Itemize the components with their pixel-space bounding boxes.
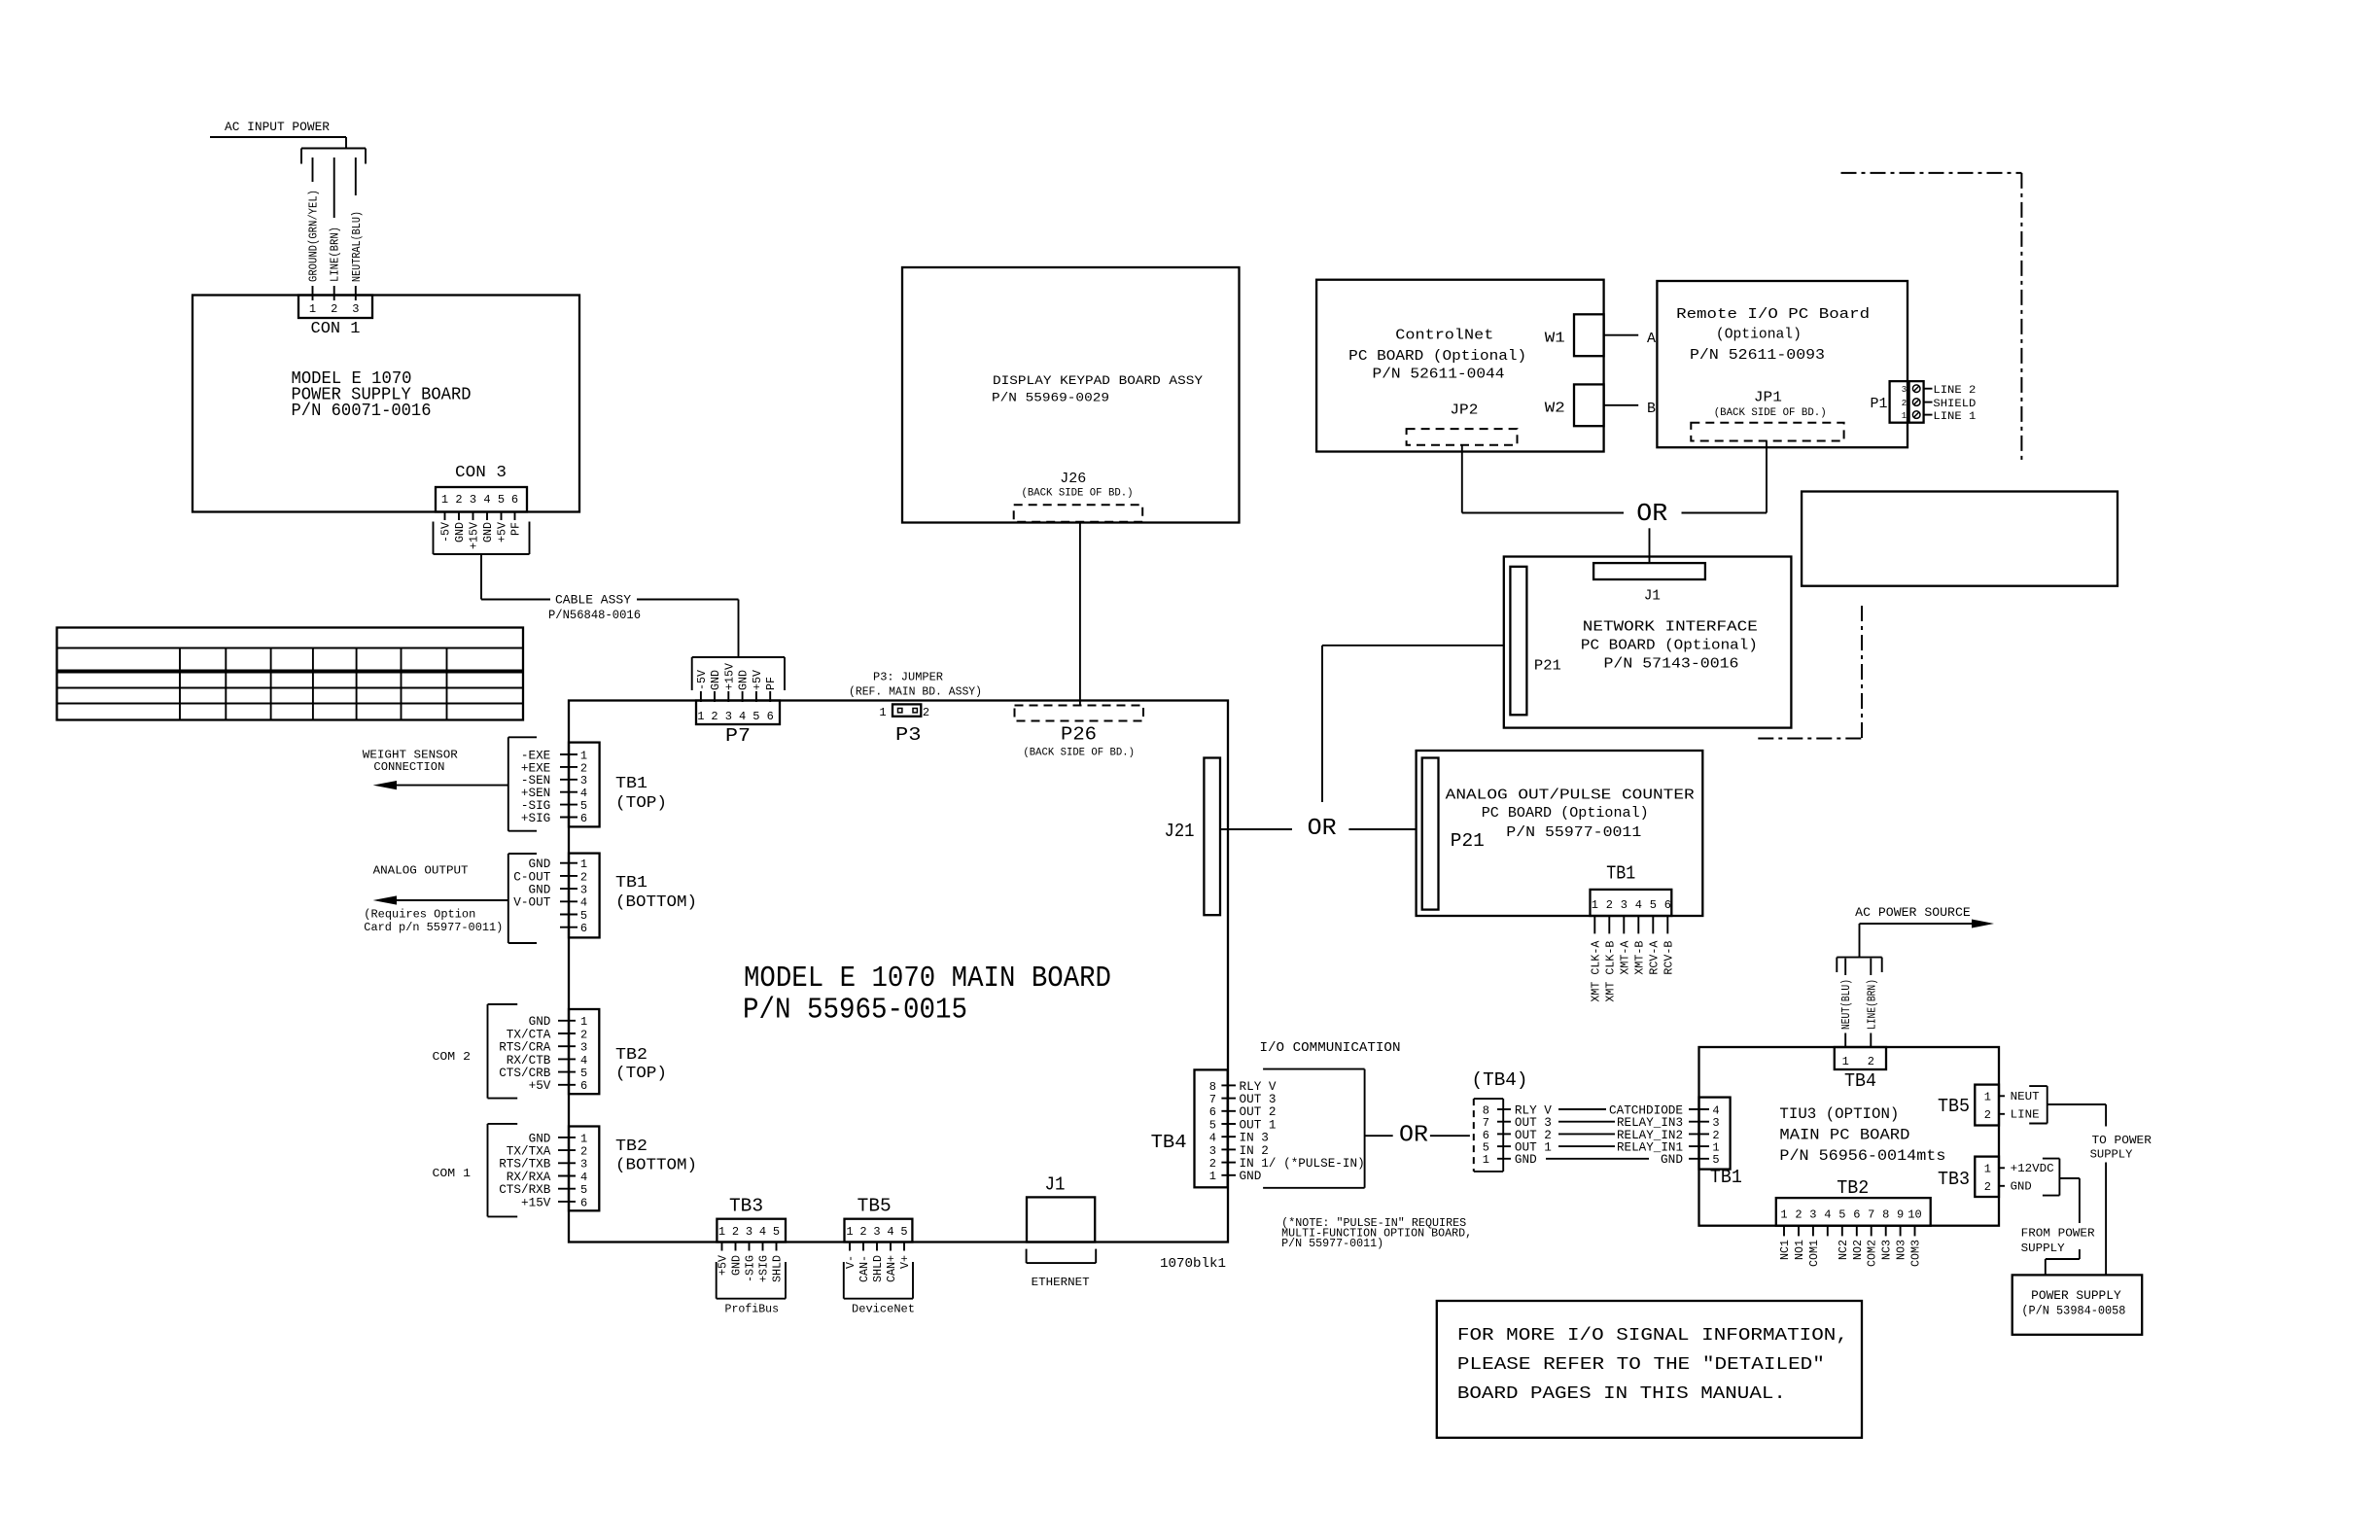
svg-text:5: 5 [1838,1208,1845,1222]
svg-text:4: 4 [1635,898,1642,912]
svg-text:GND: GND [2011,1180,2032,1194]
svg-text:NO2: NO2 [1852,1240,1865,1260]
svg-text:5: 5 [752,710,759,723]
svg-text:GND: GND [482,522,495,542]
power supply P/N 53984-0058 [2012,1275,2143,1334]
svg-text:NEUT(BLU): NEUT(BLU) [1840,979,1853,1030]
svg-text:6: 6 [1664,898,1671,912]
svg-text:SUPPLY: SUPPLY [2021,1242,2065,1255]
svg-text:3: 3 [580,884,587,897]
wire OR to network interface J1 [1649,528,1651,563]
svg-text:(Requires Option: (Requires Option [364,909,475,922]
connector J21 [1204,758,1220,916]
svg-text:2: 2 [1606,898,1613,912]
svg-text:(BOTTOM): (BOTTOM) [615,1156,697,1174]
svg-text:4: 4 [580,1171,587,1184]
svg-text:PC BOARD (Optional): PC BOARD (Optional) [1581,638,1758,654]
svg-text:2: 2 [732,1225,739,1239]
TIU3 TB1 pin ticks [1689,1108,1709,1110]
svg-text:PF: PF [510,522,523,536]
svg-text:POWER SUPPLY: POWER SUPPLY [2031,1289,2121,1303]
svg-text:+15V: +15V [521,1195,551,1209]
svg-text:P/N 55965-0015: P/N 55965-0015 [743,994,967,1028]
svg-text:DeviceNet: DeviceNet [852,1303,915,1316]
svg-text:J21: J21 [1165,821,1195,842]
svg-text:XMT CLK-B: XMT CLK-B [1604,941,1617,1002]
svg-text:GND: GND [738,670,751,690]
svg-text:+15V: +15V [723,663,736,690]
wire TB4 to OR [1365,1135,1393,1137]
connector P7 [696,701,780,725]
svg-text:NC3: NC3 [1881,1240,1894,1260]
svg-text:1: 1 [718,1225,725,1239]
svg-text:I/O COMMUNICATION: I/O COMMUNICATION [1260,1040,1401,1056]
svg-text:1: 1 [580,1132,587,1145]
svg-text:TB4: TB4 [1844,1070,1876,1092]
svg-text:PLEASE REFER TO THE "DETAILED": PLEASE REFER TO THE "DETAILED" [1457,1355,1825,1375]
connector P1 [1890,381,1924,423]
P7 pin ticks [700,691,702,702]
svg-text:(P/N 53984-0058: (P/N 53984-0058 [2021,1304,2125,1317]
TB4 pin ticks [1221,1084,1236,1086]
svg-text:5: 5 [1650,898,1657,912]
svg-text:1: 1 [1483,1153,1489,1167]
svg-text:P26: P26 [1061,724,1097,746]
svg-text:(BACK SIDE OF BD.): (BACK SIDE OF BD.) [1023,748,1135,759]
wire J21 to OR [1220,828,1292,830]
svg-text:1: 1 [1209,1170,1216,1183]
svg-text:(TOP): (TOP) [615,1065,667,1083]
terminal block TB4 (TIU3) [1835,1047,1886,1069]
svg-text:XMT CLK-A: XMT CLK-A [1590,941,1602,1002]
svg-text:4: 4 [483,493,490,507]
svg-text:V+: V+ [899,1255,912,1269]
svg-text:SHIELD: SHIELD [1933,399,1976,410]
analog out/pulse counter PC board P/N 55977-0011 [1417,751,1703,916]
svg-text:2: 2 [580,870,587,884]
connector P21 (analog board) [1422,758,1439,910]
wire OUT 1 to RELAY_IN1 [1558,1145,1615,1147]
svg-text:+5V: +5V [529,1078,551,1093]
svg-text:4: 4 [887,1225,893,1239]
svg-text:4: 4 [580,1054,587,1067]
svg-text:6: 6 [580,812,587,825]
svg-text:SUPPLY: SUPPLY [2090,1148,2133,1162]
terminal block TB1 (BOTTOM) [508,853,537,855]
svg-text:Remote I/O PC Board: Remote I/O PC Board [1676,306,1870,323]
wire GROUND(GRN/YEL) to CON1 pin 1 [312,157,314,182]
svg-text:P7: P7 [725,725,751,747]
svg-text:XMT-A: XMT-A [1619,941,1631,975]
TB5 TIU3 pin ticks [1999,1095,2005,1097]
wire network interface P21 branch [1321,646,1323,802]
svg-text:TIU3 (OPTION): TIU3 (OPTION) [1779,1105,1899,1123]
power supply board MODEL E 1070 P/N 60071-0016 [192,296,579,512]
svg-text:2: 2 [580,761,587,775]
svg-text:+5V: +5V [752,670,764,690]
svg-text:1: 1 [1592,898,1598,912]
svg-text:1: 1 [441,493,448,507]
svg-text:TB2: TB2 [615,1046,647,1065]
P7 label bracket [692,656,785,658]
svg-text:TB1: TB1 [1710,1167,1742,1188]
svg-text:+SIG: +SIG [758,1255,771,1282]
wire OR to analog board P21 [1348,828,1416,830]
svg-text:ANALOG OUT/PULSE COUNTER: ANALOG OUT/PULSE COUNTER [1446,787,1695,804]
wire W2 to B [1604,404,1639,406]
svg-text:GROUND(GRN/YEL): GROUND(GRN/YEL) [308,190,321,282]
svg-text:W2: W2 [1545,401,1565,417]
phantom boundary top right [1841,172,2022,174]
TB5 label bracket [2029,1085,2047,1087]
svg-text:2: 2 [1868,1055,1874,1068]
svg-text:3: 3 [352,302,359,316]
svg-text:V-OUT: V-OUT [513,895,550,910]
svg-text:6: 6 [511,493,518,507]
svg-text:5: 5 [900,1225,907,1239]
svg-text:-SIG: -SIG [745,1255,757,1282]
svg-text:LINE: LINE [2011,1107,2040,1121]
svg-text:+SIG: +SIG [521,811,550,825]
svg-text:P3: P3 [895,724,922,746]
svg-text:5: 5 [773,1225,780,1239]
svg-text:A: A [1647,331,1656,347]
svg-text:1: 1 [580,1015,587,1029]
wire RLY V to CATCHDIODE [1558,1108,1606,1110]
svg-text:PC BOARD (Optional): PC BOARD (Optional) [1482,805,1649,822]
svg-text:TB3: TB3 [729,1196,763,1217]
wire OR to (TB4) connector [1430,1135,1470,1137]
svg-text:CAN-: CAN- [858,1255,871,1282]
svg-text:4: 4 [580,787,587,800]
svg-text:PF: PF [765,677,778,690]
svg-text:TB2: TB2 [615,1137,647,1156]
svg-text:J1: J1 [1045,1174,1066,1196]
svg-text:NETWORK INTERFACE: NETWORK INTERFACE [1583,619,1758,636]
svg-text:P/N 57143-0016: P/N 57143-0016 [1604,655,1739,672]
svg-text:1: 1 [1984,1091,1991,1104]
svg-text:6: 6 [580,1196,587,1209]
svg-text:ProfiBus: ProfiBus [725,1303,780,1316]
svg-text:3: 3 [1809,1208,1816,1222]
spare rectangle [1802,492,2117,586]
svg-text:COM2: COM2 [1867,1240,1879,1267]
svg-text:5: 5 [580,909,587,923]
svg-text:4: 4 [759,1225,766,1239]
wire OUT 2 to RELAY_IN2 [1558,1133,1615,1135]
analog output arrow [389,899,508,901]
svg-text:5: 5 [1712,1153,1719,1167]
svg-text:CON 3: CON 3 [455,464,507,482]
svg-text:2: 2 [859,1225,866,1239]
svg-text:1: 1 [309,302,316,316]
svg-text:(BOTTOM): (BOTTOM) [615,893,697,912]
svg-text:TB5: TB5 [1938,1096,1970,1117]
wire cable assy from CON 3 to P7 [480,554,482,600]
TB3 pin ticks [721,1242,723,1251]
wire to AC POWER SOURCE [1859,924,1861,958]
svg-text:LINE 2: LINE 2 [1933,385,1976,397]
svg-text:GND: GND [454,522,467,542]
svg-text:+5V: +5V [497,522,509,542]
svg-text:5: 5 [580,799,587,813]
svg-text:XMT-B: XMT-B [1633,941,1646,975]
svg-text:OR: OR [1308,816,1337,842]
svg-text:NO1: NO1 [1794,1240,1806,1260]
svg-text:P/N 56956-0014mts: P/N 56956-0014mts [1779,1147,1945,1165]
svg-text:AC POWER SOURCE: AC POWER SOURCE [1855,906,1971,920]
svg-text:4: 4 [1824,1208,1831,1222]
svg-text:BOARD PAGES IN THIS MANUAL.: BOARD PAGES IN THIS MANUAL. [1457,1384,1786,1404]
svg-text:4: 4 [580,896,587,910]
svg-text:FOR MORE I/O SIGNAL INFORMATIO: FOR MORE I/O SIGNAL INFORMATION, [1457,1326,1848,1346]
svg-text:7: 7 [1868,1208,1874,1222]
svg-text:J26: J26 [1060,471,1086,487]
svg-text:MODEL E 1070 MAIN BOARD: MODEL E 1070 MAIN BOARD [744,962,1111,996]
connector J1 (network interface) [1593,563,1705,579]
svg-text:LINE 1: LINE 1 [1933,411,1976,423]
svg-text:COM 2: COM 2 [433,1050,472,1064]
wire W1 to A [1604,334,1639,336]
network interface PC board P/N 57143-0016 [1504,557,1792,728]
svg-text:2: 2 [1984,1108,1991,1122]
svg-text:2: 2 [1209,1157,1216,1171]
svg-text:TB1: TB1 [615,874,647,892]
connector P21 (network interface) [1510,567,1526,716]
svg-text:COM1: COM1 [1808,1240,1821,1267]
svg-text:1: 1 [580,857,587,871]
svg-text:NO3: NO3 [1896,1240,1908,1260]
svg-text:ETHERNET: ETHERNET [1032,1276,1090,1289]
svg-text:GND: GND [1661,1152,1683,1167]
svg-text:(TOP): (TOP) [615,794,667,813]
svg-text:3: 3 [580,1041,587,1055]
ControlNet PC board P/N 52611-0044 [1316,280,1604,452]
AC power source bracket [1837,957,1881,959]
svg-text:2: 2 [711,710,717,723]
CON 3 pin ticks [444,512,446,521]
display keypad board assy P/N 55969-0029 [902,267,1240,523]
connector P26 (back side of board) [1015,706,1144,721]
svg-text:MAIN PC BOARD: MAIN PC BOARD [1779,1126,1909,1143]
svg-text:RCV-A: RCV-A [1648,941,1661,975]
svg-text:2: 2 [923,706,929,719]
svg-text:3: 3 [725,710,732,723]
terminal block TB1 (TOP) [508,736,537,738]
P1 pin ticks [1924,388,1933,390]
svg-text:2: 2 [331,302,337,316]
svg-text:1: 1 [879,706,886,719]
svg-text:P1: P1 [1871,396,1888,412]
svg-text:J1: J1 [1644,588,1661,605]
TB5 label bracket [843,1262,845,1299]
wire LINE(BRN) to CON1 pin 2 [333,157,335,218]
svg-text:P/N 55977-0011): P/N 55977-0011) [1281,1238,1383,1250]
svg-text:(BACK SIDE OF BD.): (BACK SIDE OF BD.) [1714,407,1827,419]
svg-text:6: 6 [580,922,587,935]
svg-text:1070blk1: 1070blk1 [1160,1256,1226,1272]
connector CON 1 [298,296,372,319]
svg-text:10: 10 [1907,1208,1921,1222]
svg-text:TB3: TB3 [1938,1169,1970,1190]
svg-text:OR: OR [1399,1123,1428,1149]
svg-text:TB4: TB4 [1151,1132,1187,1153]
svg-text:V-: V- [845,1255,857,1269]
TB4 label box bracket [1263,1068,1365,1070]
analog TB1 pin ticks [1593,916,1595,933]
svg-text:CON 1: CON 1 [311,320,361,338]
terminal block TB2 (TOP) [488,1003,518,1005]
svg-text:1: 1 [1984,1163,1991,1176]
svg-text:CAN+: CAN+ [886,1255,898,1282]
svg-text:P/N 52611-0093: P/N 52611-0093 [1690,347,1825,364]
svg-text:4: 4 [1209,1132,1216,1145]
svg-text:2: 2 [455,493,462,507]
svg-text:LINE(BRN): LINE(BRN) [330,227,342,282]
svg-text:CONNECTION: CONNECTION [373,760,444,774]
svg-text:(Optional): (Optional) [1716,326,1802,342]
TB3 label bracket [716,1262,717,1299]
svg-text:ANALOG OUTPUT: ANALOG OUTPUT [373,864,469,878]
svg-text:3: 3 [470,493,476,507]
svg-text:7: 7 [1209,1093,1216,1106]
svg-text:9: 9 [1897,1208,1904,1222]
svg-text:COM 1: COM 1 [433,1167,472,1180]
svg-text:8: 8 [1209,1080,1216,1094]
svg-text:TB2: TB2 [1837,1177,1869,1199]
svg-text:4: 4 [739,710,746,723]
svg-text:1: 1 [1842,1055,1849,1068]
wire NEUTRAL(BLU) to CON1 pin 3 [355,157,357,195]
wire JP2 to OR [1461,445,1463,513]
svg-text:1: 1 [846,1225,853,1239]
svg-text:GND: GND [731,1255,744,1276]
svg-text:LINE(BRN): LINE(BRN) [1866,979,1878,1030]
svg-text:JP2: JP2 [1450,402,1478,419]
svg-text:AC INPUT POWER: AC INPUT POWER [225,120,330,134]
svg-text:1: 1 [1902,411,1907,421]
svg-text:NC1: NC1 [1779,1240,1792,1260]
svg-text:2: 2 [580,1145,587,1159]
Remote I/O PC board P/N 52611-0093 [1657,281,1907,447]
wire J26 to P26 [1079,523,1081,706]
svg-text:6: 6 [767,710,774,723]
svg-text:P/N56848-0016: P/N56848-0016 [548,608,641,622]
svg-text:B: B [1647,401,1656,417]
svg-text:TB5: TB5 [857,1196,892,1217]
svg-text:3: 3 [1209,1144,1216,1158]
weight sensor arrow [389,785,508,787]
CON 3 signal bracket [433,522,435,555]
main board MODEL E 1070 P/N 55965-0015 [569,701,1228,1242]
wire OR to JP1 [1682,512,1767,514]
svg-text:P3: JUMPER: P3: JUMPER [873,671,943,684]
svg-text:GND: GND [1240,1169,1262,1183]
svg-text:(TB4): (TB4) [1472,1069,1528,1091]
svg-text:8: 8 [1882,1208,1889,1222]
wire AC input bracket [301,148,366,150]
svg-text:CABLE ASSY: CABLE ASSY [555,593,631,608]
revision table [57,628,524,720]
wire P21 to OR branch [1322,645,1504,647]
TB2 TIU3 pin ticks [1783,1226,1785,1237]
svg-text:P21: P21 [1451,830,1485,852]
svg-text:1: 1 [1780,1208,1787,1222]
svg-text:5: 5 [580,1183,587,1197]
svg-text:3: 3 [873,1225,880,1239]
svg-text:W1: W1 [1545,331,1565,347]
svg-text:3: 3 [1902,385,1907,395]
svg-text:3: 3 [580,774,587,787]
svg-text:GND: GND [710,670,722,690]
svg-text:COM3: COM3 [1910,1240,1923,1267]
svg-text:3: 3 [580,1158,587,1172]
svg-text:2: 2 [580,1028,587,1041]
wire OUT 3 to RELAY_IN3 [1558,1121,1615,1123]
terminal block TB1 (TIU3) [1699,1098,1731,1170]
svg-text:ControlNet: ControlNet [1395,328,1493,344]
svg-text:P/N 60071-0016: P/N 60071-0016 [292,402,432,421]
svg-text:TB1: TB1 [615,775,647,793]
svg-text:1: 1 [697,710,704,723]
connector W2 [1574,384,1604,426]
svg-text:NEUT: NEUT [2011,1090,2040,1103]
svg-text:(REF. MAIN BD. ASSY): (REF. MAIN BD. ASSY) [849,685,982,699]
wire TB5 to power supply [2047,1103,2106,1105]
svg-text:+15V: +15V [469,522,481,549]
svg-text:-5V: -5V [696,670,709,690]
svg-text:P/N 55977-0011: P/N 55977-0011 [1506,824,1641,841]
wire TB3 from power supply [2059,1177,2080,1179]
svg-text:DISPLAY KEYPAD BOARD ASSY: DISPLAY KEYPAD BOARD ASSY [993,373,1203,388]
terminal block TB2 (BOTTOM) [488,1123,518,1125]
TB3 TIU3 pin ticks [1999,1167,2005,1169]
svg-text:+5V: +5V [717,1255,730,1276]
svg-text:P/N 55969-0029: P/N 55969-0029 [992,390,1109,404]
svg-text:2: 2 [1984,1180,1991,1194]
svg-text:5: 5 [1209,1118,1216,1132]
svg-text:5: 5 [498,493,505,507]
svg-text:2: 2 [1902,399,1907,408]
svg-text:5: 5 [580,1067,587,1080]
svg-text:NC2: NC2 [1837,1240,1850,1260]
svg-text:TO POWER: TO POWER [2092,1134,2152,1147]
TB3 label bracket [2043,1158,2060,1160]
svg-text:SHLD: SHLD [772,1255,785,1282]
svg-text:6: 6 [1853,1208,1860,1222]
svg-text:OR: OR [1636,499,1667,528]
svg-text:P/N 52611-0044: P/N 52611-0044 [1373,367,1505,383]
note box for more I/O signal information [1437,1301,1862,1438]
svg-text:P21: P21 [1534,657,1561,674]
svg-text:3: 3 [1621,898,1627,912]
svg-text:JP1: JP1 [1754,389,1782,405]
svg-text:NEUTRAL(BLU): NEUTRAL(BLU) [351,211,364,282]
svg-text:FROM POWER: FROM POWER [2021,1227,2095,1241]
svg-text:3: 3 [746,1225,752,1239]
TIU3 option main PC board P/N 56956-0014mts [1699,1047,2000,1226]
wire AC input leader [210,136,346,138]
svg-text:PC BOARD (Optional): PC BOARD (Optional) [1348,348,1526,365]
TB4 TIU3 pin ticks [1844,1033,1846,1048]
svg-text:TB1: TB1 [1606,863,1635,885]
connector W1 [1574,314,1604,356]
svg-text:1: 1 [580,749,587,762]
(TB4) pin ticks [1497,1108,1511,1110]
svg-text:+12VDC: +12VDC [2011,1162,2054,1175]
phantom boundary bottom [1861,606,1863,739]
svg-text:RCV-B: RCV-B [1662,941,1675,975]
